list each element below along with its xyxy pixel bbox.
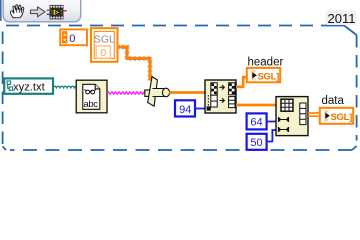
dashed diagram boundary — [3, 26, 357, 151]
wire: 2D array to data indicator — [308, 113, 320, 116]
node: Reshape Array — [276, 97, 308, 136]
svg-text:data: data — [322, 95, 345, 107]
indicator terminal data [SGL] — [320, 108, 353, 124]
tool icon: hand — [11, 5, 24, 18]
wire: split second output to Reshape Array — [236, 104, 276, 107]
wire: 94 to split index — [195, 108, 206, 110]
svg-text:xyz.txt: xyz.txt — [13, 81, 46, 93]
path constant xyz.txt — [4, 78, 53, 93]
svg-text:SGL]: SGL] — [258, 71, 280, 82]
svg-text:94: 94 — [179, 104, 191, 116]
wire: string (magenta wavy) — [107, 92, 145, 94]
indicator terminal header [SGL] — [247, 68, 280, 83]
numeric constant 64 — [247, 113, 267, 129]
wire: path (teal wavy) — [53, 86, 78, 88]
svg-text:64: 64 — [250, 117, 262, 129]
tool icon: VI film icon — [47, 5, 67, 19]
wire: 50 to reshape dim2 — [267, 130, 277, 142]
svg-text:abc: abc — [84, 99, 99, 110]
svg-text:0: 0 — [69, 33, 75, 45]
node: Read from Text File — [76, 80, 107, 113]
wire: 64 to reshape dim1 — [267, 121, 277, 123]
svg-text:SGL]: SGL] — [331, 112, 353, 123]
tool icon: arrow — [31, 7, 46, 17]
window edge fragment — [0, 0, 2, 21]
wire: SGL constant to funnel (selected, grey halo) — [118, 47, 151, 81]
numeric constant 50 — [247, 134, 267, 150]
wire: split first output to header indicator — [236, 77, 247, 87]
wire: funnel output to Split 1D Array — [169, 91, 205, 94]
svg-text:0: 0 — [100, 47, 106, 59]
svg-text:header: header — [248, 57, 284, 69]
svg-text:SGL: SGL — [94, 33, 115, 45]
label 2011 — [326, 11, 357, 26]
array constant SGL element — [91, 28, 118, 62]
node: Split 1D Array — [205, 80, 236, 113]
node: Fract/Exp String To Number (funnel) — [145, 77, 170, 107]
array constant index display — [60, 29, 87, 45]
svg-text:2011: 2011 — [328, 11, 356, 26]
svg-text:50: 50 — [250, 137, 262, 149]
numeric constant 94 — [175, 100, 195, 116]
toolbar panel — [3, 0, 81, 22]
